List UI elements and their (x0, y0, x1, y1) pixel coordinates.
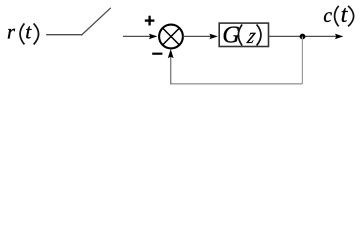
arrowhead into block G(z) (209, 34, 218, 40)
label G(z) (222, 22, 261, 49)
wire summing junction to block (183, 35, 211, 37)
arrowhead into summing junction (149, 34, 158, 40)
wire block to output (269, 35, 336, 37)
node junction dot (300, 34, 306, 40)
block G(z) (219, 23, 268, 46)
svg-text:t: t (25, 20, 32, 44)
svg-text:t: t (341, 2, 349, 28)
wire from r(t) to sampler (46, 34, 81, 36)
svg-text:c: c (323, 6, 332, 27)
svg-text:r: r (7, 22, 16, 44)
node c(t) output label (323, 2, 353, 28)
wire from sampler to summing junction (123, 35, 151, 37)
feedback wire up to summing junction (170, 55, 172, 84)
output arrowhead (335, 34, 344, 40)
sampler switch T (81, 8, 111, 36)
node r(t) input label (7, 20, 39, 45)
feedback wire bottom (171, 83, 303, 85)
summing junction U1 (159, 25, 183, 49)
feedback wire down from node (301, 37, 303, 84)
minus sign (152, 53, 162, 55)
plus sign (145, 16, 155, 26)
feedback arrowhead at summing junction (168, 49, 174, 58)
